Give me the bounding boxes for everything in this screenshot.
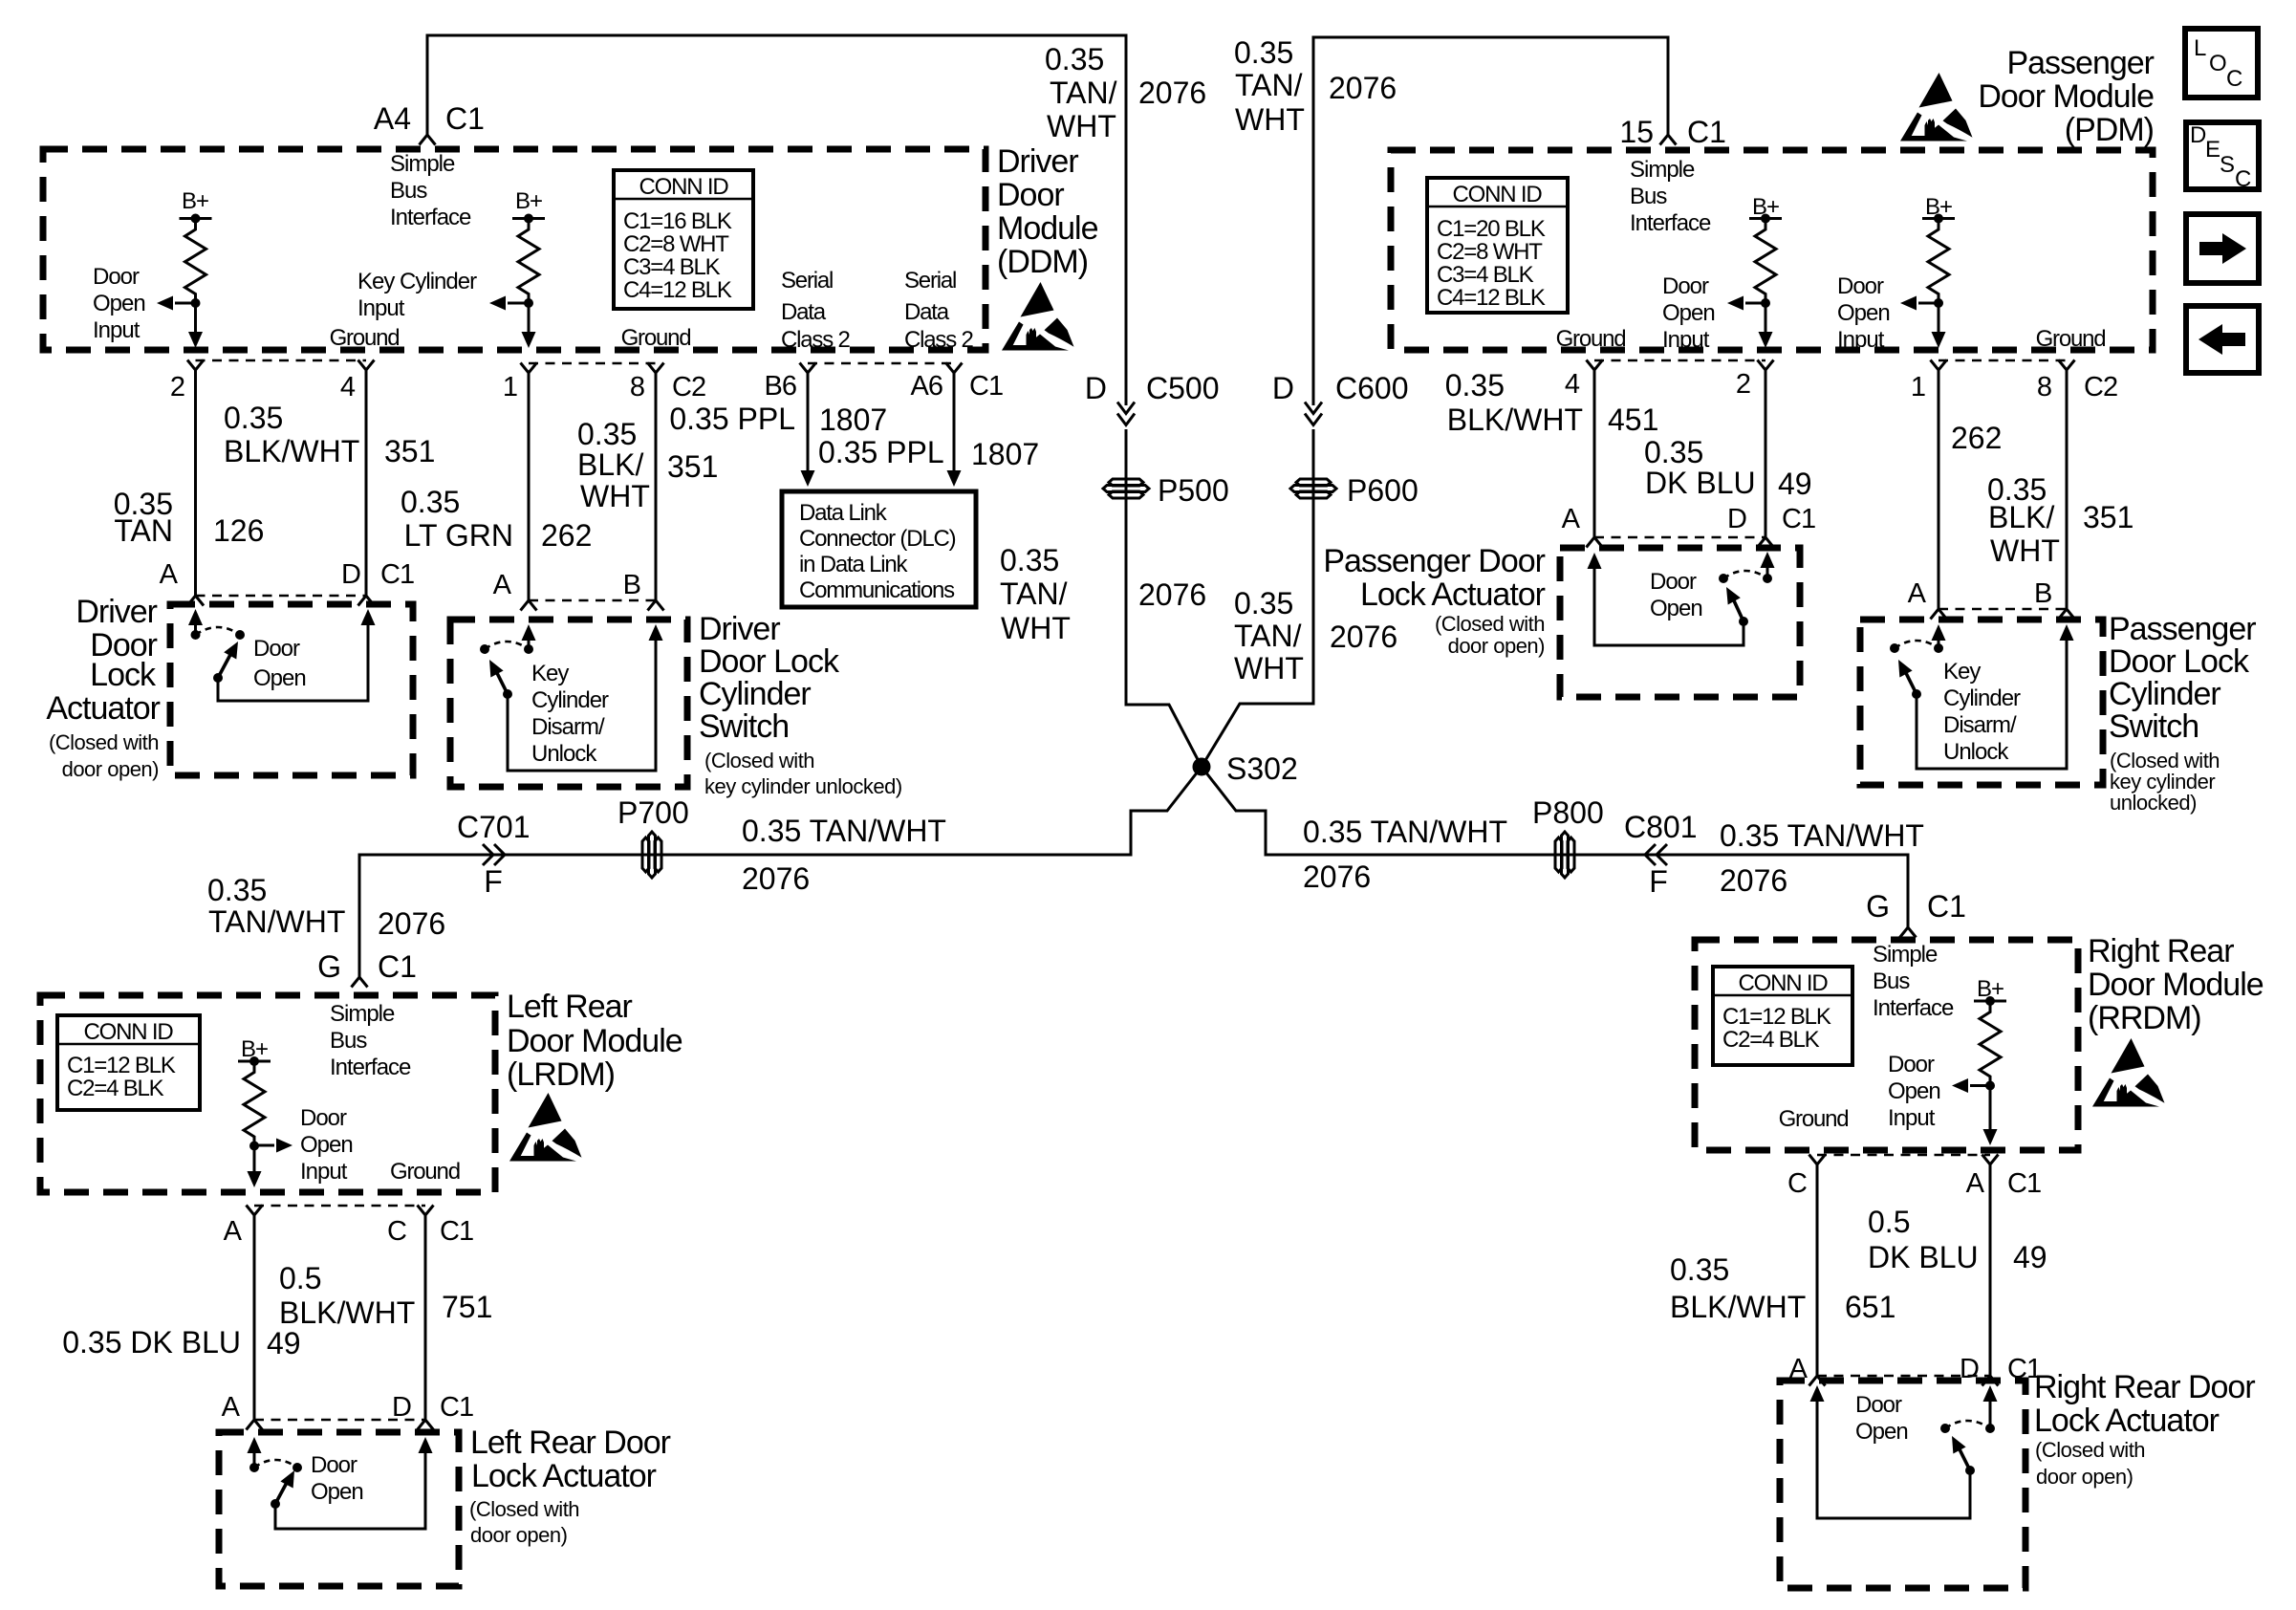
thin connector rect DDM pins 1/8: [529, 363, 656, 600]
svg-text:Class 2: Class 2: [904, 327, 973, 353]
svg-text:Key: Key: [1943, 659, 1981, 685]
thin connector rect PDM pins 1/8: [1939, 360, 2067, 609]
svg-text:WHT: WHT: [1990, 533, 2060, 568]
svg-text:Bus: Bus: [330, 1028, 367, 1054]
svg-text:(Closed with: (Closed with: [2035, 1438, 2145, 1462]
svg-text:C701: C701: [457, 810, 531, 844]
svg-text:E: E: [2205, 137, 2220, 163]
svg-text:2: 2: [170, 372, 184, 402]
svg-text:C2: C2: [2084, 372, 2117, 402]
driver cylinder pin A arrow and contact: [522, 624, 536, 641]
svg-text:Key Cylinder: Key Cylinder: [357, 269, 477, 294]
svg-text:C4=12 BLK: C4=12 BLK: [1437, 285, 1546, 311]
svg-text:D: D: [2190, 122, 2206, 148]
svg-text:4: 4: [340, 372, 356, 402]
svg-text:Door Module: Door Module: [507, 1023, 682, 1059]
svg-text:Door Lock: Door Lock: [2109, 643, 2250, 680]
svg-text:Serial: Serial: [781, 268, 833, 294]
svg-text:D: D: [1272, 371, 1294, 405]
RR actuator pin D arrow: [1989, 1399, 1992, 1428]
svg-text:CONN ID: CONN ID: [1739, 970, 1829, 996]
svg-text:0.35: 0.35: [1000, 543, 1059, 577]
svg-text:C2=4 BLK: C2=4 BLK: [67, 1076, 164, 1101]
svg-text:Class 2: Class 2: [781, 327, 850, 353]
LR actuator pin A arrow and contact: [248, 1437, 262, 1453]
svg-text:C500: C500: [1146, 371, 1220, 405]
svg-text:(Closed with: (Closed with: [704, 749, 814, 772]
Left Rear Door Lock Actuator dashed box: [219, 1432, 459, 1586]
svg-text:D: D: [341, 559, 360, 590]
svg-text:351: 351: [384, 434, 435, 468]
svg-text:B: B: [623, 570, 640, 600]
wire S302 to right bus: [1202, 767, 1908, 927]
svg-text:C: C: [2235, 166, 2251, 192]
svg-text:unlocked): unlocked): [2110, 791, 2197, 815]
svg-text:Bus: Bus: [1873, 968, 1910, 994]
DDM module dashed box: [43, 149, 986, 350]
Driver Door Lock Cylinder Switch dashed box: [450, 620, 687, 787]
LR actuator switch arc: [254, 1460, 297, 1468]
passenger cylinder pin A arrow and contact: [1932, 624, 1946, 641]
thin connector rect DDM pins 2/4: [196, 360, 367, 596]
svg-text:S302: S302: [1226, 751, 1298, 786]
svg-text:LT GRN: LT GRN: [404, 518, 513, 553]
svg-text:O: O: [2209, 51, 2226, 76]
svg-text:WHT: WHT: [1001, 611, 1071, 645]
svg-text:0.35: 0.35: [1670, 1252, 1729, 1287]
svg-text:C4=12 BLK: C4=12 BLK: [623, 277, 732, 303]
svg-text:Driver: Driver: [76, 594, 157, 630]
svg-text:4: 4: [1565, 369, 1580, 400]
svg-text:Left Rear Door: Left Rear Door: [470, 1425, 671, 1461]
svg-text:2076: 2076: [1330, 620, 1397, 654]
svg-text:1: 1: [1911, 372, 1925, 402]
svg-text:Lock Actuator: Lock Actuator: [1360, 577, 1546, 613]
svg-text:0.5: 0.5: [1868, 1205, 1910, 1239]
DLC box: [782, 491, 976, 607]
wire pin 2: [1758, 360, 1774, 371]
svg-text:2076: 2076: [1329, 71, 1397, 105]
svg-text:A: A: [160, 559, 179, 590]
svg-text:0.35 PPL: 0.35 PPL: [818, 435, 944, 469]
svg-text:A: A: [222, 1392, 241, 1423]
wire pin A: [247, 1206, 263, 1216]
svg-text:G: G: [317, 949, 341, 984]
svg-text:Passenger: Passenger: [2006, 45, 2154, 81]
svg-text:Door: Door: [1650, 569, 1697, 595]
svg-text:key cylinder unlocked): key cylinder unlocked): [704, 774, 902, 798]
svg-text:C2=8 WHT: C2=8 WHT: [1437, 239, 1543, 265]
svg-text:Connector (DLC): Connector (DLC): [799, 526, 956, 552]
svg-text:2076: 2076: [378, 906, 445, 941]
svg-text:Interface: Interface: [390, 205, 471, 230]
ESD symbol RRDM: [2092, 1038, 2165, 1107]
svg-text:Bus: Bus: [1630, 184, 1667, 209]
svg-text:451: 451: [1608, 402, 1658, 437]
wire serial data B6 to DLC: [800, 363, 816, 374]
svg-text:door open): door open): [2036, 1465, 2133, 1489]
svg-text:Data Link: Data Link: [799, 500, 888, 526]
svg-text:Door: Door: [1662, 273, 1709, 299]
svg-text:Open: Open: [93, 291, 145, 316]
svg-text:Simple: Simple: [1873, 942, 1938, 968]
svg-text:C2: C2: [672, 372, 705, 402]
svg-text:Door: Door: [253, 636, 300, 662]
wire C500 to P500: [1126, 429, 1202, 767]
svg-text:Input: Input: [93, 317, 141, 343]
driver cylinder return wire to pin B: [508, 638, 656, 771]
svg-text:Driver: Driver: [997, 143, 1078, 180]
svg-text:TAN/: TAN/: [1000, 577, 1068, 611]
svg-text:C1: C1: [440, 1392, 473, 1423]
svg-text:WHT: WHT: [580, 479, 650, 513]
svg-text:8: 8: [2037, 372, 2051, 402]
wire C600 to S302: [1202, 429, 1313, 767]
svg-text:(PDM): (PDM): [2065, 112, 2154, 148]
connector fork at DDM pin A4 C1: [420, 135, 436, 145]
thin connector rect PDM pins 4/2: [1594, 360, 1765, 537]
svg-text:2076: 2076: [742, 861, 810, 896]
svg-text:262: 262: [541, 518, 592, 553]
svg-text:BLK/WHT: BLK/WHT: [279, 1295, 415, 1330]
svg-text:Ground: Ground: [330, 325, 400, 351]
grommet P600: [1290, 479, 1336, 498]
svg-text:C1=20 BLK: C1=20 BLK: [1437, 216, 1546, 242]
svg-text:Input: Input: [1662, 327, 1710, 353]
splice S302: [1193, 758, 1211, 776]
svg-text:(RRDM): (RRDM): [2088, 1000, 2201, 1036]
svg-text:Cylinder: Cylinder: [531, 687, 609, 713]
svg-text:Switch: Switch: [2109, 708, 2199, 745]
Driver Door Lock Actuator dashed box: [170, 604, 413, 775]
svg-text:S: S: [2220, 152, 2234, 178]
svg-text:C1: C1: [969, 371, 1003, 402]
svg-text:Open: Open: [300, 1132, 353, 1158]
svg-text:49: 49: [267, 1326, 301, 1360]
svg-text:15: 15: [1619, 115, 1654, 149]
svg-text:Door Module: Door Module: [1978, 78, 2154, 115]
svg-text:Input: Input: [1837, 327, 1885, 353]
forward arrow button: [2186, 214, 2259, 283]
svg-text:0.35: 0.35: [1234, 35, 1293, 70]
wire pin 8: [648, 363, 664, 374]
svg-text:Communications: Communications: [799, 577, 955, 603]
svg-text:751: 751: [442, 1290, 492, 1324]
wire pin A: [1982, 1155, 1999, 1165]
thin connector rect LRDM pins A/C: [254, 1206, 425, 1420]
svg-text:A: A: [1562, 504, 1581, 534]
svg-text:Door: Door: [311, 1452, 357, 1478]
svg-text:Open: Open: [1650, 596, 1702, 621]
svg-text:C1=12 BLK: C1=12 BLK: [67, 1053, 176, 1078]
wire: PDM pin 15/C1 up and over to C600 drop: [1313, 37, 1668, 405]
svg-text:G: G: [1866, 889, 1890, 924]
svg-text:door open): door open): [1448, 634, 1545, 658]
svg-text:(Closed with: (Closed with: [469, 1497, 579, 1521]
svg-text:Open: Open: [1837, 300, 1890, 326]
svg-text:P700: P700: [617, 795, 689, 830]
svg-text:351: 351: [667, 449, 718, 484]
passenger actuator pin A arrow: [1588, 553, 1602, 569]
svg-text:Passenger Door: Passenger Door: [1323, 543, 1545, 579]
svg-text:WHT: WHT: [1235, 102, 1305, 137]
grommet P800: [1555, 832, 1574, 878]
svg-text:Bus: Bus: [390, 178, 427, 204]
svg-text:Lock: Lock: [90, 657, 157, 693]
svg-text:A: A: [224, 1216, 243, 1247]
svg-text:CONN ID: CONN ID: [84, 1019, 174, 1045]
svg-text:Open: Open: [311, 1479, 363, 1505]
wire pin 4: [1587, 360, 1603, 371]
svg-text:0.35: 0.35: [1644, 435, 1703, 469]
wire pin C: [1809, 1155, 1826, 1165]
svg-text:Ground: Ground: [390, 1159, 460, 1185]
svg-text:Simple: Simple: [390, 151, 455, 177]
svg-text:0.35: 0.35: [224, 401, 283, 435]
svg-text:C: C: [387, 1216, 406, 1247]
svg-text:D: D: [392, 1392, 411, 1423]
svg-text:Lock Actuator: Lock Actuator: [2034, 1403, 2220, 1439]
svg-text:C3=4 BLK: C3=4 BLK: [623, 254, 721, 280]
ESD symbol PDM: [1900, 73, 1973, 141]
svg-text:C1=16 BLK: C1=16 BLK: [623, 208, 732, 234]
svg-text:2076: 2076: [1138, 577, 1206, 612]
RRDM module dashed box: [1695, 940, 2078, 1150]
grommet P500: [1103, 479, 1149, 498]
svg-text:D: D: [1727, 504, 1746, 534]
RR actuator pin A arrow: [1810, 1385, 1825, 1402]
svg-text:P500: P500: [1158, 473, 1229, 508]
svg-text:Right Rear: Right Rear: [2088, 933, 2234, 969]
svg-text:0.35 TAN/WHT: 0.35 TAN/WHT: [1303, 815, 1507, 849]
svg-text:2: 2: [1736, 369, 1750, 400]
svg-text:C1: C1: [1687, 115, 1726, 149]
svg-text:Open: Open: [1888, 1078, 1940, 1104]
passenger actuator switch arc: [1719, 574, 1728, 583]
passenger actuator pin D arrow: [1766, 565, 1769, 578]
svg-text:C801: C801: [1624, 810, 1698, 844]
svg-text:B+: B+: [182, 188, 208, 214]
svg-text:Simple: Simple: [1630, 157, 1695, 183]
svg-text:C1: C1: [445, 101, 485, 136]
svg-text:Key: Key: [531, 661, 569, 686]
svg-text:Ground: Ground: [621, 325, 691, 351]
passenger cylinder switch lever: [1904, 669, 1917, 694]
svg-text:TAN/WHT: TAN/WHT: [208, 904, 345, 939]
svg-text:C: C: [1787, 1168, 1807, 1199]
svg-text:Interface: Interface: [1873, 995, 1954, 1021]
svg-text:Serial: Serial: [904, 268, 956, 294]
svg-text:0.35: 0.35: [577, 417, 637, 451]
svg-text:TAN/: TAN/: [1235, 68, 1303, 102]
passenger cylinder switch arc: [1895, 641, 1939, 648]
wire pin 8: [2059, 360, 2075, 371]
Passenger Door Lock Cylinder Switch dashed box: [1860, 620, 2103, 785]
svg-text:B+: B+: [515, 188, 542, 214]
svg-text:0.5: 0.5: [279, 1261, 321, 1295]
Right Rear Door Lock Actuator dashed box: [1780, 1381, 2025, 1588]
thin connector dash serial data pins: [808, 362, 954, 364]
svg-text:8: 8: [630, 372, 644, 402]
svg-text:C600: C600: [1335, 371, 1409, 405]
LRDM module dashed box: [40, 995, 495, 1192]
svg-text:126: 126: [213, 513, 264, 548]
svg-text:Actuator: Actuator: [46, 690, 160, 727]
wire: DDM pin A4/C1 up and over to C500 drop: [427, 35, 1126, 405]
svg-text:Disarm/: Disarm/: [1943, 712, 2017, 738]
svg-text:(DDM): (DDM): [997, 244, 1088, 280]
svg-text:TAN/: TAN/: [1050, 76, 1117, 110]
CONN ID table LRDM: [57, 1015, 200, 1110]
connector fork at PDM pin 15 C1: [1660, 135, 1677, 145]
svg-text:BLK/WHT: BLK/WHT: [224, 434, 359, 468]
svg-text:TAN: TAN: [114, 513, 173, 548]
svg-text:Cylinder: Cylinder: [2109, 676, 2220, 712]
svg-text:P800: P800: [1532, 795, 1604, 830]
Passenger Door Lock Actuator dashed box: [1560, 548, 1800, 697]
svg-text:BLK/WHT: BLK/WHT: [1670, 1290, 1806, 1324]
svg-text:2076: 2076: [1303, 859, 1371, 894]
svg-text:1: 1: [503, 372, 517, 402]
LOC button: [2185, 29, 2258, 98]
svg-text:Ground: Ground: [1779, 1106, 1849, 1132]
svg-text:Door: Door: [1888, 1052, 1935, 1077]
svg-text:Module: Module: [997, 210, 1098, 247]
wire S302 to left bus: [359, 767, 1202, 977]
svg-text:Input: Input: [1888, 1105, 1936, 1131]
svg-text:Door: Door: [300, 1105, 347, 1131]
svg-text:Left Rear: Left Rear: [507, 989, 633, 1025]
svg-text:0.35 TAN/WHT: 0.35 TAN/WHT: [742, 814, 946, 848]
svg-text:Open: Open: [253, 665, 306, 691]
svg-text:BLK/: BLK/: [1988, 500, 2054, 534]
svg-text:0.35: 0.35: [1045, 42, 1104, 76]
svg-text:L: L: [2194, 35, 2206, 61]
back arrow button: [2186, 306, 2259, 373]
svg-text:A: A: [1966, 1168, 1985, 1199]
CONN ID table DDM: [614, 170, 753, 309]
svg-text:Input: Input: [357, 295, 405, 321]
driver actuator return wire to pin D: [218, 622, 368, 701]
svg-text:CONN ID: CONN ID: [1453, 182, 1543, 207]
svg-text:Open: Open: [1662, 300, 1715, 326]
RR actuator switch arc: [1940, 1424, 1950, 1433]
svg-text:A6: A6: [911, 371, 942, 402]
svg-text:WHT: WHT: [1234, 651, 1304, 685]
svg-text:Door Lock: Door Lock: [699, 643, 840, 680]
svg-text:Interface: Interface: [1630, 210, 1711, 236]
svg-text:0.35: 0.35: [401, 485, 460, 519]
svg-text:1807: 1807: [971, 437, 1039, 471]
svg-text:0.35: 0.35: [1234, 586, 1293, 620]
svg-text:F: F: [1649, 864, 1668, 899]
svg-text:Data: Data: [781, 299, 827, 325]
passenger cylinder return wire to pin B: [1917, 638, 2067, 769]
svg-text:Passenger: Passenger: [2109, 611, 2256, 647]
svg-text:BLK/WHT: BLK/WHT: [1447, 402, 1583, 437]
svg-text:C3=4 BLK: C3=4 BLK: [1437, 262, 1534, 288]
svg-text:B: B: [2034, 578, 2051, 609]
svg-text:C1: C1: [1927, 889, 1966, 924]
svg-text:Door: Door: [1837, 273, 1884, 299]
svg-text:0.35 TAN/WHT: 0.35 TAN/WHT: [1720, 818, 1924, 853]
wire serial data A6 to DLC: [946, 363, 963, 374]
svg-text:2076: 2076: [1720, 863, 1787, 898]
svg-text:Door: Door: [997, 177, 1064, 213]
svg-text:Interface: Interface: [330, 1055, 411, 1080]
svg-text:0.35 DK BLU: 0.35 DK BLU: [62, 1325, 241, 1360]
svg-text:Data: Data: [904, 299, 950, 325]
ESD symbol DDM: [1002, 282, 1074, 351]
svg-text:(Closed with: (Closed with: [1435, 612, 1545, 636]
LR actuator return wire to pin D: [275, 1450, 425, 1529]
svg-text:TAN/: TAN/: [1234, 619, 1302, 653]
passenger actuator switch lever: [1739, 617, 1748, 626]
svg-text:C1: C1: [1782, 504, 1815, 534]
wire pin 1: [521, 363, 537, 374]
wire pin 2: [187, 360, 204, 371]
svg-text:F: F: [484, 864, 503, 899]
svg-text:door open): door open): [470, 1523, 567, 1547]
svg-text:C2=4 BLK: C2=4 BLK: [1722, 1027, 1820, 1053]
svg-text:B6: B6: [765, 371, 796, 402]
svg-text:D: D: [1085, 371, 1107, 405]
driver actuator switch arc: [196, 627, 241, 635]
svg-text:0.35: 0.35: [207, 873, 267, 907]
svg-text:C1=12 BLK: C1=12 BLK: [1722, 1004, 1831, 1030]
DESC button: [2186, 122, 2259, 192]
svg-text:Input: Input: [300, 1159, 348, 1185]
svg-text:Disarm/: Disarm/: [531, 714, 605, 740]
LR actuator switch lever: [275, 1479, 289, 1504]
wire pin C: [418, 1206, 434, 1216]
svg-text:Unlock: Unlock: [1943, 739, 2009, 765]
svg-text:Ground: Ground: [2036, 326, 2106, 352]
svg-text:door open): door open): [62, 757, 159, 781]
svg-text:1807: 1807: [819, 402, 887, 437]
svg-text:351: 351: [2083, 500, 2134, 534]
PDM module dashed box: [1391, 150, 2153, 350]
svg-text:(Closed with: (Closed with: [49, 730, 159, 754]
svg-text:Unlock: Unlock: [531, 741, 597, 767]
svg-text:0.35 PPL: 0.35 PPL: [669, 402, 795, 436]
svg-text:C1: C1: [440, 1216, 473, 1247]
driver actuator pin A arrow and contact: [188, 609, 203, 625]
CONN ID table PDM: [1427, 178, 1568, 313]
wire pin 4: [358, 360, 375, 371]
thin connector rect RRDM pins C/A: [1817, 1155, 1990, 1376]
svg-text:49: 49: [1778, 467, 1812, 501]
grommet P700: [642, 832, 661, 878]
svg-text:Door Module: Door Module: [2088, 967, 2264, 1003]
connector C500: [1117, 402, 1135, 425]
svg-text:651: 651: [1845, 1290, 1895, 1324]
svg-text:Right Rear Door: Right Rear Door: [2034, 1369, 2255, 1405]
svg-text:A4: A4: [374, 101, 411, 136]
driver cylinder switch lever: [495, 669, 508, 694]
svg-text:Cylinder: Cylinder: [699, 676, 811, 712]
svg-text:A: A: [493, 570, 512, 600]
svg-text:C: C: [2226, 66, 2242, 92]
connector C801: [1645, 844, 1667, 865]
svg-text:0.35: 0.35: [1445, 368, 1505, 402]
svg-text:in Data Link: in Data Link: [799, 552, 909, 577]
svg-text:CONN ID: CONN ID: [639, 174, 729, 200]
svg-text:2076: 2076: [1138, 76, 1206, 110]
svg-text:DK BLU: DK BLU: [1645, 466, 1756, 500]
svg-text:C1: C1: [378, 949, 417, 984]
svg-text:(LRDM): (LRDM): [507, 1056, 615, 1093]
